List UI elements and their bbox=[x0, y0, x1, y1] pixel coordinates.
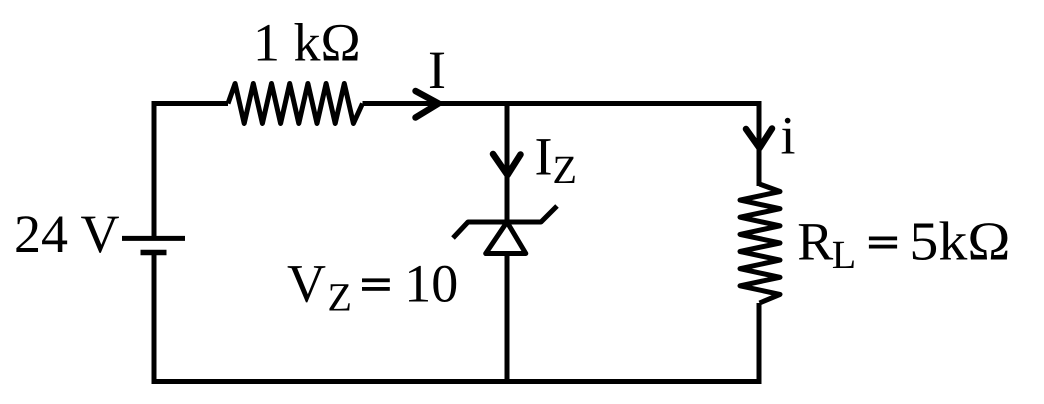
wire: left vertical lower (battery bottom to bottom-left corner) bbox=[152, 253, 157, 385]
wire: right branch lower (load resistor to bottom-right corner) and bottom wire bbox=[152, 303, 762, 382]
wire: middle branch lower (zener anode to bottom wire) bbox=[505, 254, 510, 382]
svg-text:1 kΩ: 1 kΩ bbox=[253, 13, 361, 73]
current arrow i on right branch bbox=[746, 129, 772, 149]
resistor RL (load, 5 kOhm) vertical zigzag bbox=[740, 184, 780, 303]
battery V1 short plate (negative) bbox=[141, 250, 167, 256]
zener diode D1: anode triangle (pointing up) bbox=[486, 222, 526, 254]
svg-text:24 V: 24 V bbox=[14, 204, 120, 264]
battery V1 long plate (positive) bbox=[122, 236, 185, 241]
current arrow I on top wire bbox=[416, 91, 439, 118]
current arrow IZ on middle branch bbox=[493, 154, 521, 175]
zener diode D1: cathode bar with bent ends bbox=[453, 206, 557, 238]
wire: left vertical upper (battery top to top-left corner) and top-left segment to resistor bbox=[154, 104, 228, 239]
svg-text:I: I bbox=[428, 40, 446, 100]
wire: middle branch upper (junction to zener cathode) bbox=[505, 104, 510, 223]
svg-text:5kΩ: 5kΩ bbox=[909, 211, 1010, 272]
wire: top wire from resistor to top-right corner, down to load resistor bbox=[363, 101, 762, 186]
resistor R (1 kOhm) zigzag on top wire bbox=[228, 84, 363, 124]
svg-text:i: i bbox=[781, 106, 796, 166]
